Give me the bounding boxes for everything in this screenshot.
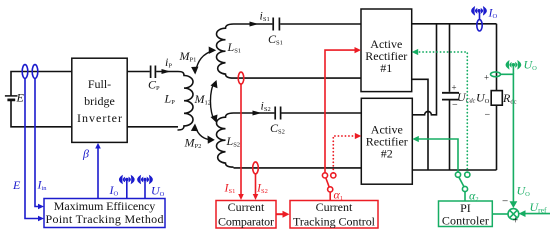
svg-text:Point Tracking Method: Point Tracking Method: [46, 212, 164, 226]
wire: right dc vertical with load: [496, 24, 498, 170]
wire: UO receiver stem: [144, 181, 146, 199]
probe UO (loop on load wire): [491, 72, 501, 77]
inductor LS1 (secondary coil 1): [217, 24, 234, 78]
arrowhead IS1 into comparator: [238, 194, 244, 200]
switch alpha2 contact 1: [455, 172, 460, 177]
svg-text:Tracking Control: Tracking Control: [293, 214, 376, 228]
wire: top dc rail: [412, 23, 497, 25]
capacitor CP: [151, 66, 156, 79]
wire: inverter bottom right to Lp bottom: [127, 126, 178, 128]
wire: switch alpha2 to rectifier 2 (solid): [416, 139, 458, 172]
probe Iin: [32, 65, 38, 79]
wire: rectifier 1 negative output down: [412, 79, 428, 170]
probe IS1 on LS1 wire: [238, 72, 244, 84]
wire: rectifier 2 positive output up with hop over crossing: [412, 24, 436, 115]
wire: battery top to inverter: [11, 72, 72, 96]
full-bridge inverter U-inv: [72, 58, 127, 142]
svg-text:Current: Current: [228, 200, 265, 214]
wire: Iin measurement to MEPT: [35, 78, 39, 206]
svg-text:β: β: [82, 147, 89, 161]
switch alpha2 lever: [459, 177, 464, 187]
wire: IO receiver stem: [126, 181, 128, 199]
PI controller box: [439, 201, 493, 227]
wire: bottom dc rail: [412, 169, 496, 171]
switch alpha2 pole: [462, 186, 467, 191]
svg-text:Maximum Effiicency: Maximum Effiicency: [54, 199, 156, 213]
wire: Cdc bottom lead: [449, 100, 451, 170]
arrow comparator to tracking control: [277, 213, 284, 215]
wire: LS1 bottom to rectifier 1: [234, 77, 362, 79]
inductor LP (primary coil): [178, 72, 194, 131]
current arrow iP: [162, 69, 171, 74]
svg-text:#2: #2: [381, 147, 393, 161]
wire: battery bottom to inverter: [11, 100, 72, 127]
active rectifier #2 box U2: [361, 98, 412, 184]
coupling arrow MP1: [195, 51, 213, 73]
wire: switch pole to PI controller: [464, 191, 466, 201]
probe IO on dc rail: [477, 20, 482, 31]
svg-text:+: +: [513, 216, 519, 227]
svg-text:E: E: [12, 178, 21, 192]
antenna icon UO transmitter: [506, 60, 522, 70]
arrowhead beta into inverter: [95, 143, 101, 149]
switch alpha1 contact 1: [322, 173, 327, 178]
arrowhead Uref into summing node: [519, 210, 526, 217]
svg-text:bridge: bridge: [84, 94, 115, 108]
arrowhead Iin into MEPT: [38, 204, 44, 210]
wire: UO measurement right and down to summing node: [501, 74, 514, 203]
active rectifier #1 box U1: [361, 9, 412, 92]
wire: LS1 top to CS1: [234, 23, 273, 25]
arrowhead UO into summing node: [510, 201, 518, 208]
switch alpha1 pole: [328, 187, 333, 192]
antenna icon UO receiver: [137, 175, 153, 185]
arrowhead IS2 into comparator: [253, 194, 259, 200]
wire: Uref into summing node: [523, 213, 550, 215]
svg-text:Current: Current: [316, 200, 353, 214]
wire: switch alpha2 dotted line up to rectifier 1: [416, 52, 467, 172]
summing node X: [510, 210, 517, 217]
svg-text:Inverter: Inverter: [77, 111, 122, 125]
wire: LS2 bottom to rectifier 2: [234, 167, 362, 169]
wire: switch alpha1 to rectifier 2 (dotted): [333, 136, 356, 173]
arrowhead green dotted into rectifier 1: [412, 49, 419, 55]
wire: CS2 to rectifier 2: [281, 112, 361, 114]
wire: switch to tracking control box: [329, 192, 331, 201]
svg-text:Comparator: Comparator: [218, 214, 274, 228]
wire: IO probe stem top right: [479, 13, 481, 20]
probe E (current transformer on source wire): [22, 65, 28, 79]
svg-text:#1: #1: [380, 61, 392, 75]
wire: LS2 top to CS2: [234, 112, 275, 114]
switch alpha1 contact 2: [331, 173, 336, 178]
svg-text:E: E: [16, 91, 25, 105]
wire: Cdc top lead: [449, 24, 451, 92]
current arrow iS2: [253, 111, 262, 116]
resistor Rdc: [491, 91, 502, 106]
wire: IS1 measurement down to comparator: [240, 84, 242, 195]
capacitor Cdc: [442, 93, 459, 100]
antenna icon IO receiver: [119, 175, 135, 185]
svg-text:+: +: [484, 73, 489, 83]
svg-text:+: +: [452, 83, 457, 93]
wire: CS1 to rectifier 1: [280, 23, 361, 25]
current arrow iS1: [250, 22, 259, 27]
wire: switch alpha1 to rectifier 1 (solid): [325, 50, 356, 173]
svg-text:Full-: Full-: [88, 77, 111, 91]
inductor LS2 (secondary coil 2): [217, 113, 234, 167]
coupling arrow M12: [210, 83, 214, 121]
arrowhead green solid into rectifier 2: [412, 136, 419, 142]
antenna icon IO transmitter: [471, 6, 487, 16]
arrowhead E into MEPT: [38, 216, 44, 222]
svg-text:−: −: [485, 110, 491, 121]
switch alpha1 lever: [326, 178, 330, 188]
arrowhead red solid into rectifier 1: [355, 47, 362, 53]
wire: antenna stem UO: [512, 67, 514, 75]
capacitor CS2: [275, 107, 280, 120]
current tracking control box: [290, 201, 378, 229]
wire: E measurement to MEPT: [25, 78, 39, 218]
wire: inverter right to Cp: [127, 71, 150, 73]
coupling arrow MP2: [195, 126, 212, 140]
svg-text:Controler: Controler: [442, 213, 489, 227]
current comparator box: [216, 201, 276, 229]
probe IS2 on LS2 wire: [253, 162, 259, 174]
svg-text:−: −: [502, 196, 508, 208]
MEPT box: [44, 199, 165, 228]
wire: IS2 measurement down to comparator: [255, 174, 257, 195]
capacitor CS1: [273, 18, 279, 31]
wire: beta control up to inverter: [97, 148, 99, 199]
wire: summing node to PI controller: [493, 213, 508, 215]
battery E: [5, 96, 18, 100]
wire: Cp to Lp top: [156, 71, 178, 73]
switch alpha2 contact 2: [465, 172, 470, 177]
arrowhead red dotted into rectifier 2: [355, 133, 362, 139]
summing node circle: [508, 209, 519, 220]
